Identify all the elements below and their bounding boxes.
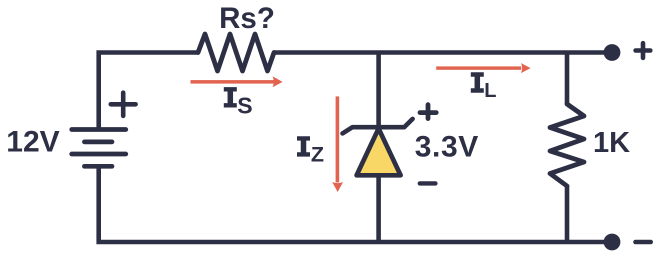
battery plus sign [111,93,136,116]
zener plus sign [420,105,436,119]
battery V1 12V plates [72,130,126,167]
svg-text:S: S [237,93,252,119]
wire zener branch top [376,53,381,129]
label Iz: serif capital I [297,136,310,156]
output terminal dot plus [604,44,621,61]
svg-text:3.3V: 3.3V [415,131,479,164]
zener diode D1 triangle anode, 3.3V [357,129,401,176]
label Is: serif capital I [224,87,237,107]
wire load branch top [565,53,570,105]
output minus sign [636,240,651,245]
zener minus sign [420,181,436,185]
wire top rail right of Rs [274,50,612,55]
svg-text:12V: 12V [6,125,59,158]
label IL: serif capital I [471,72,484,92]
wire left rail and bottom rail [99,53,612,243]
output plus sign [636,43,651,58]
output terminal dot minus [604,234,621,251]
svg-text:1K: 1K [593,127,630,159]
current arrow Iz [332,96,343,192]
svg-text:Z: Z [311,143,324,167]
wire zener branch bottom [376,173,381,242]
zener diode D1 cathode bar with bent ends [343,119,413,133]
svg-text:L: L [484,80,496,102]
current arrow Is [191,76,283,87]
current arrow IL [436,63,530,73]
resistor RL 1K vertical zigzag [550,104,584,186]
wire load branch bottom [565,186,570,242]
svg-text:Rs?: Rs? [219,2,275,35]
resistor Rs (series resistor, horizontal zigzag) [198,34,274,71]
